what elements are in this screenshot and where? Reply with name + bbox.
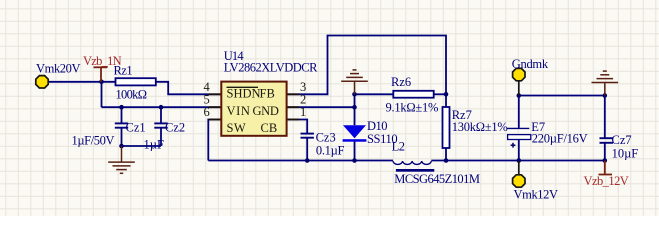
svg-text:0.1µF: 0.1µF	[316, 144, 345, 158]
svg-text:Rz1: Rz1	[114, 64, 133, 78]
wire Cz1 bottom lead	[121, 128, 123, 146]
svg-text:1: 1	[300, 105, 306, 119]
svg-text:Cz2: Cz2	[165, 121, 185, 135]
wire Cz7 top lead	[604, 96, 606, 138]
wire E7 bottom lead	[518, 140, 520, 161]
ground 3 top right	[592, 71, 619, 95]
ground 2 above diode node	[341, 70, 368, 94]
svg-text:Vmk20V: Vmk20V	[36, 61, 81, 75]
wire Cz2 bottom lead	[160, 128, 162, 146]
svg-text:Cz7: Cz7	[612, 133, 632, 147]
wire Cz7 bottom lead	[604, 143, 606, 161]
svg-text:9.1kΩ±1%: 9.1kΩ±1%	[386, 101, 439, 115]
svg-text:Vmk12V: Vmk12V	[514, 188, 559, 202]
svg-text:L2: L2	[392, 140, 405, 154]
wire Cz1 top lead	[121, 107, 123, 122]
resistor Rz7	[443, 107, 450, 148]
svg-text:SW: SW	[227, 121, 247, 135]
wire Rz1 right to pin 4	[156, 82, 222, 95]
capacitor Cz1	[115, 123, 128, 127]
svg-text:LV2862XLVDDCR: LV2862XLVDDCR	[224, 61, 318, 75]
wire Cz3 bottom lead	[306, 138, 308, 161]
svg-text:1µF: 1µF	[144, 137, 164, 151]
svg-text:Cz3: Cz3	[316, 131, 336, 145]
wire diode column lower	[354, 142, 356, 161]
wire Rz7 bottom lead	[445, 148, 447, 161]
wire output row	[431, 160, 605, 162]
svg-text:Rz6: Rz6	[391, 75, 411, 89]
svg-text:MCSG645Z101M: MCSG645Z101M	[394, 172, 480, 186]
svg-text:130kΩ±1%: 130kΩ±1%	[452, 120, 508, 134]
svg-text:FB: FB	[260, 87, 275, 101]
resistor Rz1	[116, 78, 156, 85]
resistor Rz6	[393, 91, 433, 98]
op-amp U14 body	[221, 82, 286, 136]
node junction dots	[99, 80, 607, 163]
wire gnd node to Rz6 left	[355, 93, 394, 95]
pin stubs U14	[209, 94, 299, 119]
svg-text:VIN: VIN	[227, 104, 251, 118]
wire E7 top lead	[518, 96, 520, 129]
wire Vmk12V pad stem	[518, 161, 520, 175]
svg-text:100kΩ: 100kΩ	[116, 88, 147, 102]
svg-text:SHDN: SHDN	[227, 87, 261, 101]
svg-text:220µF/16V: 220µF/16V	[532, 131, 588, 145]
wire diode column upper	[354, 94, 356, 125]
capacitor Cz2	[154, 123, 167, 127]
wire VIN row to pin 5	[102, 106, 222, 108]
diode D10	[343, 125, 367, 142]
wire Rz6 right lead	[434, 93, 446, 95]
wire cap bottom rail	[122, 145, 162, 147]
inductor L2	[393, 161, 431, 164]
wire pad Vmk20V to Rz1	[48, 81, 116, 83]
ground 1 below Cz1	[108, 146, 135, 173]
wire pin 3 FB loop	[287, 36, 446, 95]
wire Cz2 top lead	[160, 107, 162, 122]
svg-text:6: 6	[204, 105, 210, 119]
power port Vzb_1N tie	[94, 67, 108, 82]
wire Gndmk pad stem	[518, 81, 520, 96]
svg-text:Vzb_12V: Vzb_12V	[584, 174, 629, 188]
wire ground rail top right	[519, 95, 605, 97]
wire pin 6 SW down	[208, 120, 221, 161]
wire Rz7 top lead	[445, 94, 447, 107]
svg-text:1µF/50V: 1µF/50V	[72, 133, 115, 147]
svg-text:GND: GND	[253, 104, 279, 118]
inductor L2 core bar	[396, 169, 434, 172]
pad Vmk20V	[36, 76, 48, 88]
svg-text:10µF: 10µF	[612, 147, 639, 161]
pad Vmk12V	[513, 175, 525, 187]
wire SW row	[208, 160, 393, 162]
wire pin 2 GND	[287, 106, 355, 108]
svg-text:CB: CB	[261, 121, 278, 135]
wire pin 1 CB to Cz3	[287, 120, 308, 134]
capacitor Cz7	[600, 138, 614, 143]
wire junction down to VIN row	[101, 82, 103, 107]
power port Vzb_12V tie	[599, 161, 613, 175]
pad Gndmk	[513, 68, 525, 80]
capacitor Cz3	[301, 134, 314, 138]
capacitor E7 polarized	[507, 128, 531, 147]
svg-text:Cz1: Cz1	[126, 121, 146, 135]
svg-text:Gndmk: Gndmk	[512, 57, 549, 71]
